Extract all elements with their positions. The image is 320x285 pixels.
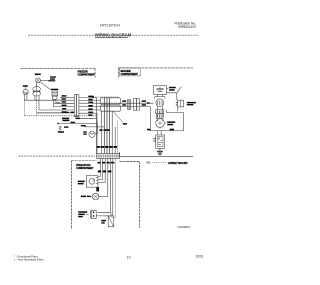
heater legs xyxy=(54,99,60,106)
door switch xyxy=(89,210,92,219)
lower bus wire xyxy=(58,122,98,124)
overload stubs lower xyxy=(157,107,162,110)
ff light label xyxy=(81,196,91,198)
svg-text:COMPARTMENT: COMPARTMENT xyxy=(76,167,94,170)
bundle wire labels above connector xyxy=(97,146,117,148)
left ground wire to fresh food section xyxy=(19,155,96,157)
cabinet ground symbol xyxy=(157,150,163,152)
wire bus 5 xyxy=(39,109,74,111)
compressor motor xyxy=(156,119,165,128)
plug label xyxy=(187,102,196,106)
defrost timer box lower xyxy=(101,105,121,111)
svg-text:GN: GN xyxy=(147,163,151,165)
wire labels right of connector xyxy=(88,96,93,116)
wire bus 1 xyxy=(60,96,74,98)
machine compartment label box xyxy=(119,68,140,76)
bundle wire labels below connector xyxy=(98,162,115,164)
inline wire labels left xyxy=(122,100,126,105)
defrost thermostat xyxy=(23,89,28,94)
relay box xyxy=(153,86,166,95)
svg-text:5995342100: 5995342100 xyxy=(178,25,196,29)
defrost thermostat label xyxy=(23,85,28,87)
svg-text:FRT21IPZH4: FRT21IPZH4 xyxy=(100,24,120,28)
bus wire labels left xyxy=(62,95,80,119)
wire bus 4 xyxy=(54,106,75,108)
evaporator fan motor xyxy=(36,84,38,86)
ground bus line xyxy=(119,152,193,156)
thermostat legs xyxy=(24,95,27,101)
control thermostat xyxy=(86,176,98,188)
svg-text:CABINET GROUND: CABINET GROUND xyxy=(168,162,188,165)
defrost timer box upper xyxy=(101,98,121,104)
inline connector B xyxy=(133,99,136,110)
freezer light lamp xyxy=(36,78,41,83)
wire left into box xyxy=(150,107,152,131)
timer vertical wires xyxy=(104,98,109,154)
lamp feed wire xyxy=(84,126,104,128)
relay label xyxy=(167,88,169,90)
compressor label xyxy=(165,122,167,124)
svg-text:24230801: 24230801 xyxy=(177,225,190,229)
inline connector A xyxy=(127,100,129,109)
wire relay to plug xyxy=(167,87,182,93)
start device stack xyxy=(156,110,164,114)
svg-text:10: 10 xyxy=(127,255,131,259)
wire bus 6 right with corner down xyxy=(79,113,97,123)
arrow marks left xyxy=(59,126,62,130)
header dotted rule xyxy=(28,34,198,36)
lower bus labels xyxy=(62,112,75,123)
ground dashed wire xyxy=(24,115,97,117)
extra label row xyxy=(100,129,110,131)
svg-text:† - Non-Illustrated Parts: † - Non-Illustrated Parts xyxy=(14,258,44,262)
mid lamp label xyxy=(83,131,87,132)
motor legs xyxy=(35,96,39,110)
wire diagonal lamp to heater xyxy=(41,82,51,90)
inline wire labels right xyxy=(142,100,150,105)
gn pigtail label xyxy=(101,220,106,224)
dashed vertical lamp leg xyxy=(36,83,38,90)
freezer compartment dashed boundary top xyxy=(21,68,96,77)
harness connector block xyxy=(74,95,76,117)
harness hline upper xyxy=(80,117,97,119)
compressor box outline xyxy=(149,113,183,131)
overload stubs xyxy=(157,94,162,96)
wire to bundle v1 xyxy=(96,97,98,153)
ff light xyxy=(92,193,99,200)
overload cap xyxy=(155,97,166,99)
lower harness connector bar xyxy=(97,154,120,159)
wire bus 4 right to machine xyxy=(79,106,151,108)
callout diagonal xyxy=(113,111,123,122)
gn pigtail connector xyxy=(108,216,114,227)
svg-text:COMPARTMENT: COMPARTMENT xyxy=(78,74,96,77)
wire bus 1 right xyxy=(79,96,97,98)
wire bus 6 xyxy=(37,112,75,114)
power cord receptacle xyxy=(158,131,162,135)
overload protector xyxy=(156,99,164,107)
svg-text:COMPARTMENT: COMPARTMENT xyxy=(121,73,139,76)
wire lamp right xyxy=(40,80,48,82)
door switch label xyxy=(78,211,87,217)
wire bus 2 right xyxy=(79,100,101,102)
header title underline xyxy=(95,37,128,39)
wire bus 5 right xyxy=(79,109,101,111)
defrost heater xyxy=(52,91,58,96)
defrost heater label xyxy=(51,89,59,90)
power cord plug xyxy=(176,93,178,100)
machine compartment dashed boundary top xyxy=(119,68,194,78)
wire bus 2 xyxy=(24,99,74,101)
freezer light label xyxy=(35,74,41,76)
dashed jumper above timer xyxy=(93,96,120,98)
bundle dots xyxy=(96,170,111,191)
bundle verticals xyxy=(102,111,113,153)
wire bus 3 right to machine xyxy=(79,102,153,104)
ff bundle verticals xyxy=(98,159,100,177)
fresh food compartment dashed box xyxy=(72,160,97,162)
wire bus 3 xyxy=(54,102,74,104)
fan label xyxy=(50,76,56,77)
svg-text:10/01: 10/01 xyxy=(195,255,203,259)
mid lamp xyxy=(89,131,95,137)
control thermostat label xyxy=(78,181,85,185)
